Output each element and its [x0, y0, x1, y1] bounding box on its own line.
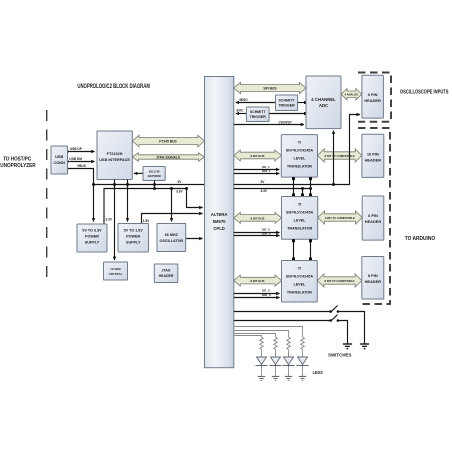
svg-text:8 BIT BUS: 8 BIT BUS	[251, 154, 265, 158]
wire OE_3	[234, 289, 280, 294]
svg-text:EOC: EOC	[237, 109, 245, 113]
LED D3	[283, 350, 295, 380]
resistor R4	[301, 337, 305, 350]
svg-text:5V TO 3.3V: 5V TO 3.3V	[82, 229, 102, 233]
svg-text:LEVEL: LEVEL	[293, 157, 306, 161]
bus 8 BIT BUS 2	[234, 212, 282, 223]
svg-text:DIR_1: DIR_1	[262, 169, 271, 173]
svg-text:8 BIT BUS: 8 BIT BUS	[251, 279, 265, 283]
svg-text:EEPROM: EEPROM	[148, 174, 162, 178]
wire 5V rail left	[94, 180, 205, 185]
wire LED line 4	[234, 336, 262, 338]
svg-text:SN74LVC4245A: SN74LVC4245A	[286, 149, 314, 153]
wire T2-T3 supply pin A	[292, 239, 295, 260]
svg-text:DIR_3: DIR_3	[262, 293, 271, 297]
svg-text:TI: TI	[298, 141, 301, 145]
wire DIR_1	[234, 169, 279, 173]
svg-text:CRYSTAL: CRYSTAL	[109, 272, 123, 276]
ground for switch 2	[343, 344, 352, 349]
wire EEPROM to FT2232H	[134, 172, 143, 174]
svg-text:SCHMITT: SCHMITT	[250, 110, 267, 114]
wire 5V to ADC	[332, 131, 335, 186]
bus 4 ANALOG	[341, 89, 362, 100]
svg-text:TO ARDUINO: TO ARDUINO	[405, 236, 436, 242]
resistor R3	[287, 337, 291, 350]
svg-text:OSCILLOSCOPE INPUTS: OSCILLOSCOPE INPUTS	[400, 90, 449, 96]
svg-text:JTAG: JTAG	[161, 269, 170, 273]
svg-text:8 BIT BUS: 8 BIT BUS	[251, 216, 265, 220]
bus 8 BIT 5V COMPATIBLE 1	[318, 149, 362, 162]
wire ADC to schmitt2	[269, 112, 307, 115]
svg-text:LEVEL: LEVEL	[294, 219, 307, 223]
wire LED line 2	[234, 331, 289, 338]
svg-text:HEADER: HEADER	[365, 158, 382, 163]
level translator T3 box	[282, 261, 318, 303]
svg-text:66 MHZ: 66 MHZ	[165, 233, 179, 237]
svg-text:SCHMITT: SCHMITT	[279, 99, 296, 103]
level translator T2 box	[282, 197, 318, 240]
wire oscillator output to CPLD	[186, 238, 203, 240]
wire translator supply pin A	[292, 177, 295, 196]
bus FT245 BUS	[132, 135, 204, 147]
svg-text:VBUS: VBUS	[77, 164, 86, 168]
svg-text:HEADER: HEADER	[159, 274, 174, 278]
svg-text:6 PIN: 6 PIN	[368, 92, 378, 97]
svg-text:SUPPLY: SUPPLY	[85, 241, 100, 245]
6 pin header 2 box	[362, 196, 384, 240]
8 pin header box	[362, 257, 384, 300]
oscillator 66MHZ box	[157, 224, 186, 252]
wire 5V rail right to 6 pin header	[234, 115, 360, 185]
LED D2	[270, 350, 282, 380]
wire switch 1 with ground	[234, 306, 365, 345]
wire 3.3V to oscillator	[170, 187, 173, 222]
bus 8 BIT 5V COMPATIBLE 2	[318, 211, 362, 224]
svg-text:USB DM: USB DM	[69, 157, 82, 161]
schmitt trigger U1 box	[276, 95, 298, 111]
svg-text:5M570: 5M570	[213, 219, 226, 224]
svg-text:4 ANALOG: 4 ANALOG	[345, 93, 359, 97]
CPLD ALTERA 5M570 box	[205, 77, 234, 368]
svg-text:3.3V: 3.3V	[176, 189, 183, 193]
svg-text:TRIGGER: TRIGGER	[278, 104, 295, 108]
svg-text:POWER: POWER	[126, 235, 140, 239]
svg-text:4 CHANNEL: 4 CHANNEL	[311, 97, 336, 102]
dashed enclosure arduino	[358, 128, 390, 304]
power supply 5V to 1.8V box	[118, 224, 149, 253]
svg-text:SWITCHES: SWITCHES	[328, 353, 352, 359]
wire FT2232H to 12MHZ crystal	[113, 180, 116, 261]
svg-text:TRANSLATOR: TRANSLATOR	[287, 227, 312, 231]
svg-text:10 PIN: 10 PIN	[367, 152, 379, 157]
6 pin header 1 box	[362, 75, 384, 118]
wire LED line 1	[234, 327, 303, 338]
svg-text:FT245 BUS: FT245 BUS	[159, 140, 177, 144]
svg-text:SN74LVC4245A: SN74LVC4245A	[286, 275, 314, 279]
wire EEPROM power drop	[153, 181, 156, 191]
svg-text:OSCILLATOR: OSCILLATOR	[159, 239, 183, 243]
svg-text:HEADER: HEADER	[365, 279, 382, 284]
svg-text:SN74LVC4245A: SN74LVC4245A	[286, 211, 314, 215]
svg-text:3.3V: 3.3V	[261, 189, 268, 193]
ground for switch 1	[360, 344, 369, 349]
svg-text:CONVST: CONVST	[279, 120, 293, 124]
wire T2-T3 supply pin B	[309, 239, 312, 260]
wire switch 2 with ground	[234, 315, 348, 345]
wire DIR_3	[234, 293, 280, 298]
bus 8 BIT BUS 1	[234, 150, 281, 161]
svg-text:TI: TI	[298, 203, 301, 207]
ADC 4 channel box	[306, 76, 341, 129]
wire DIR_2	[234, 232, 280, 236]
USB connector box	[51, 146, 68, 174]
svg-text:LEVEL: LEVEL	[293, 283, 306, 287]
svg-text:UNOPROLYZER: UNOPROLYZER	[0, 163, 35, 169]
wire 3.3V to T2 pin	[301, 187, 304, 197]
EEPROM 93LC46 box	[143, 167, 165, 181]
svg-text:TO HOST/PC: TO HOST/PC	[3, 156, 31, 162]
svg-text:8 BIT 5V COMPATIBLE: 8 BIT 5V COMPATIBLE	[325, 216, 355, 220]
wire USB DP	[70, 147, 95, 151]
level translator T1 box	[281, 135, 317, 178]
svg-text:USB: USB	[55, 154, 63, 159]
svg-text:1.8V: 1.8V	[143, 219, 150, 223]
bus 8 BIT 5V COMPATIBLE 3	[317, 274, 362, 287]
svg-text:UNOPROLOGIC2 BLOCK DIAGRAM: UNOPROLOGIC2 BLOCK DIAGRAM	[77, 83, 149, 90]
wire OE_2	[234, 228, 280, 233]
svg-text:3.3V: 3.3V	[106, 218, 113, 222]
resistor R2	[274, 337, 278, 350]
wire 3.3V rail right	[234, 189, 311, 194]
left boundary dashed line	[46, 110, 48, 283]
crystal 12MHZ box	[104, 262, 128, 280]
svg-text:93LC46: 93LC46	[149, 170, 160, 174]
svg-text:USB INTERFACE: USB INTERFACE	[99, 158, 130, 162]
svg-text:LEDS: LEDS	[313, 370, 324, 376]
JTAG header box	[154, 264, 178, 283]
wire 5V to 1.8V supply feed	[126, 180, 129, 222]
schmitt trigger U2 box	[247, 107, 270, 122]
svg-text:POWER: POWER	[85, 235, 99, 239]
LED D4	[297, 350, 309, 380]
svg-text:8 BIT 5V COMPATIBLE: 8 BIT 5V COMPATIBLE	[325, 154, 355, 158]
wire MISO schmitt to CPLD	[236, 98, 276, 102]
wire CONVST CPLD to ADC	[234, 120, 304, 124]
wire ADC to schmitt1	[298, 101, 308, 104]
svg-text:USB DP: USB DP	[70, 147, 83, 151]
svg-text:TRIGGER: TRIGGER	[250, 115, 267, 119]
resistor R1	[260, 337, 264, 350]
svg-text:5V TO 1.8V: 5V TO 1.8V	[124, 229, 144, 233]
svg-text:MISO: MISO	[240, 98, 249, 102]
wire VBUS to 5V rail and 3.3V supply	[68, 164, 96, 221]
bus SPI BUS	[234, 82, 306, 93]
svg-text:12 MHZ: 12 MHZ	[110, 267, 121, 271]
svg-text:8 BIT 5V COMPATIBLE: 8 BIT 5V COMPATIBLE	[325, 279, 355, 283]
svg-text:ADC: ADC	[319, 103, 328, 108]
wire 1.8V rail to CPLD	[142, 214, 203, 224]
wire translator supply pin B	[309, 177, 312, 196]
dashed enclosure oscilloscope	[358, 73, 391, 122]
svg-text:HEADER: HEADER	[365, 219, 382, 224]
svg-text:HEADER: HEADER	[364, 98, 381, 103]
svg-text:FT2232H: FT2232H	[107, 152, 123, 156]
power supply 5V to 3.3V box	[77, 224, 107, 252]
wire LED line 3	[234, 334, 276, 338]
svg-text:TRANSLATOR: TRANSLATOR	[287, 165, 312, 169]
svg-text:CONN: CONN	[53, 160, 65, 165]
bus 8 BIT BUS 3	[234, 275, 282, 286]
svg-text:TI: TI	[298, 267, 301, 271]
svg-text:ALTERA: ALTERA	[211, 212, 228, 217]
svg-text:JTAG SIGNALS: JTAG SIGNALS	[156, 156, 181, 160]
FT2232H USB interface box	[97, 131, 132, 180]
wire 3.3V rail left	[104, 187, 203, 224]
wire USB DM	[69, 157, 94, 161]
svg-text:6 PIN: 6 PIN	[368, 213, 378, 218]
svg-text:SPI BUS: SPI BUS	[263, 87, 277, 91]
LED D1	[256, 350, 268, 380]
svg-text:DIR_2: DIR_2	[262, 232, 271, 236]
bus JTAG SIGNALS	[132, 153, 204, 161]
svg-text:8 PIN: 8 PIN	[368, 273, 378, 278]
10 pin header box	[362, 134, 384, 177]
svg-text:CPLD: CPLD	[213, 226, 224, 231]
wire EOC schmitt to CPLD	[236, 109, 247, 114]
svg-text:SUPPLY: SUPPLY	[126, 241, 141, 245]
svg-text:TRANSLATOR: TRANSLATOR	[287, 291, 312, 295]
wire OE_1	[234, 165, 279, 170]
